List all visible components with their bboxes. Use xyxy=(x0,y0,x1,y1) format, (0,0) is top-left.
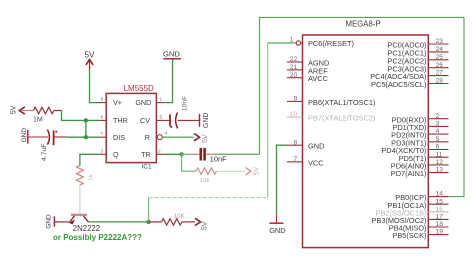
pin 20 AVCC stub xyxy=(287,72,329,83)
svg-text:19: 19 xyxy=(436,229,444,236)
wire THR node to DIS node xyxy=(85,120,87,137)
svg-text:2: 2 xyxy=(436,113,440,120)
svg-text:GND: GND xyxy=(135,98,151,107)
svg-text:12: 12 xyxy=(436,159,444,166)
pin 25 PC2(ADC2) stub xyxy=(387,54,448,66)
supply 5V (right of 10K) xyxy=(195,218,208,230)
svg-text:5: 5 xyxy=(436,136,440,143)
wire net B: collector node to RESET xyxy=(149,43,297,222)
pin 10 PB7(XTAL2/TOSC2) stub xyxy=(287,111,376,122)
IC1 pin stub DIS pin 7 xyxy=(99,131,106,137)
wire mega GND pin to ground xyxy=(277,145,287,223)
svg-text:20: 20 xyxy=(290,72,298,79)
pin 15 PB1(OC1A) stub xyxy=(387,198,448,210)
pin 13 PD7(AIN1) stub xyxy=(391,167,449,179)
svg-text:1M: 1M xyxy=(33,117,43,124)
ground GND (rotated, at 4.7uF) xyxy=(21,128,28,144)
svg-text:18: 18 xyxy=(436,221,444,228)
svg-text:10nF: 10nF xyxy=(210,155,227,164)
svg-text:9: 9 xyxy=(294,96,298,103)
wire node to cap xyxy=(182,153,191,155)
svg-text:5V: 5V xyxy=(253,167,260,176)
svg-text:7: 7 xyxy=(101,131,104,136)
svg-text:PB5(SCK): PB5(SCK) xyxy=(392,231,426,240)
svg-text:23: 23 xyxy=(436,38,444,45)
pin 23 PC0(ADC0) stub xyxy=(387,38,448,50)
ground GND (top, 555 GND pin) xyxy=(163,50,181,59)
svg-text:PD7(AIN1): PD7(AIN1) xyxy=(391,169,427,178)
pin 11 PD5(T1) stub xyxy=(399,151,449,163)
wire net A riser and top run xyxy=(260,17,465,154)
pin 17 PB3(MOSI/OC2) stub xyxy=(371,214,448,226)
wire 1M to THR node xyxy=(62,111,100,121)
pin 14 PB0(ICP) stub xyxy=(395,191,448,203)
wire cap to riser (net A) xyxy=(206,153,214,155)
svg-text:or Possibly P2222A???: or Possibly P2222A??? xyxy=(53,233,142,242)
ground GND (below mega) xyxy=(269,223,285,235)
svg-text:5V: 5V xyxy=(202,134,209,143)
pin 5 PD3(INT1) stub xyxy=(391,136,448,148)
pin 4 PD2(INT0) stub xyxy=(391,128,448,140)
svg-text:PC5(ADC5/SCL): PC5(ADC5/SCL) xyxy=(371,80,426,89)
wire ground to emitter xyxy=(54,221,69,223)
svg-text:24: 24 xyxy=(436,46,444,53)
svg-text:11: 11 xyxy=(436,151,443,158)
svg-text:GND: GND xyxy=(163,50,180,59)
pin 19 PB5(SCK) stub xyxy=(392,229,448,241)
svg-text:10K: 10K xyxy=(174,213,186,220)
svg-text:THR: THR xyxy=(113,116,128,125)
svg-text:2: 2 xyxy=(158,148,161,154)
pin 24 PC1(ADC1) stub xyxy=(387,46,448,58)
IC1 pin names xyxy=(113,98,151,159)
IC1 pin stub TR pin 2 xyxy=(156,148,163,154)
svg-text:5V: 5V xyxy=(85,50,96,59)
svg-text:4: 4 xyxy=(436,128,440,135)
pin 1 PC6(/RESET) xyxy=(290,36,354,47)
wire net A down right side to PB0 xyxy=(449,17,465,196)
IC1 pin stub THR pin 6 xyxy=(99,114,106,120)
svg-text:26: 26 xyxy=(436,62,444,69)
wire TR pin to node xyxy=(164,153,182,155)
svg-text:5V: 5V xyxy=(201,221,208,230)
resistor 10k (faded, to 5V) xyxy=(196,168,246,174)
pin 9 PB6(XTAL1/TOSC1) stub xyxy=(287,96,376,107)
svg-text:PB6(XTAL1/TOSC1): PB6(XTAL1/TOSC1) xyxy=(308,98,376,107)
svg-text:4.7uF: 4.7uF xyxy=(41,144,48,161)
svg-text:22: 22 xyxy=(290,56,298,63)
pin 12 PD6(AIN0) stub xyxy=(391,159,449,171)
wire 5V to V+ pin xyxy=(90,70,100,103)
svg-text:1: 1 xyxy=(160,97,163,103)
wire Q pin to 1k xyxy=(80,154,99,165)
IC IC1 LM555D timer box xyxy=(106,93,156,162)
pin 21 AREF stub xyxy=(287,64,328,75)
capacitor C 4.7uF (polarized) xyxy=(28,130,66,146)
ground GND (rotated, at emitter) xyxy=(46,214,55,229)
svg-text:6: 6 xyxy=(101,114,104,119)
svg-text:TR: TR xyxy=(141,150,151,159)
resistor 1k (faded, vertical) xyxy=(77,165,84,185)
svg-text:CV: CV xyxy=(140,116,150,125)
pin 16 PB2(SS/OC1B) stub xyxy=(376,206,449,218)
wire collector to node xyxy=(89,221,149,223)
svg-text:3: 3 xyxy=(101,148,104,153)
junction TR node xyxy=(180,152,184,156)
resistor 10K (pullup) xyxy=(162,219,196,225)
pin 7 VCC stub xyxy=(287,156,324,167)
supply 5V (top, to 555 V+) xyxy=(85,50,96,69)
transistor Q 2N2222 xyxy=(69,214,89,225)
svg-text:4: 4 xyxy=(165,131,168,137)
svg-text:GND: GND xyxy=(308,142,324,151)
svg-text:LM555D: LM555D xyxy=(124,84,154,93)
pin 2 PD0(RXD) stub xyxy=(392,113,449,125)
pin 6 PD4(XCK/T0) stub xyxy=(381,144,448,156)
svg-text:10nF: 10nF xyxy=(181,96,188,112)
svg-text:AVCC: AVCC xyxy=(308,74,329,83)
supply 5V (left, at 1M) xyxy=(11,105,34,114)
junction collector node xyxy=(146,220,150,224)
junction DIS node xyxy=(84,135,88,139)
svg-text:DIS: DIS xyxy=(113,133,125,142)
svg-text:10k: 10k xyxy=(200,178,210,184)
pin 18 PB4(MISO) stub xyxy=(389,221,449,233)
svg-text:IC1: IC1 xyxy=(142,164,153,171)
svg-text:1k: 1k xyxy=(88,174,94,180)
svg-text:7: 7 xyxy=(294,156,298,163)
pin 26 PC3(ADC3) stub xyxy=(387,62,448,74)
svg-text:MEGA8-P: MEGA8-P xyxy=(346,19,381,28)
pin 28 PC5(ADC5/SCL) stub xyxy=(371,78,448,90)
svg-text:15: 15 xyxy=(436,198,444,205)
IC1 pin stub GND pin 1 xyxy=(156,97,163,103)
svg-text:R: R xyxy=(145,133,150,142)
capacitor 10nF (coupling, on TR) xyxy=(200,148,206,161)
ground GND (rotated, right of CV cap) xyxy=(200,113,211,129)
svg-text:27: 27 xyxy=(436,70,444,77)
svg-text:21: 21 xyxy=(290,64,298,71)
svg-text:28: 28 xyxy=(436,78,444,85)
pin 27 PC4(ADC4/SDA) stub xyxy=(370,70,448,82)
supply 5V (faded, right of 10k) xyxy=(245,167,260,176)
IC1 pin stub R pin 4 (inverted) xyxy=(157,131,167,140)
svg-text:3: 3 xyxy=(436,121,440,128)
supply 5V (at R pin, arrow right) xyxy=(194,134,209,143)
svg-text:6: 6 xyxy=(436,144,440,151)
svg-text:8: 8 xyxy=(294,139,298,146)
capacitor 10nF (polarized, on CV) xyxy=(170,113,200,129)
IC MEGA8-P box xyxy=(303,35,429,248)
svg-text:PB7(XTAL2/TOSC2): PB7(XTAL2/TOSC2) xyxy=(308,114,376,123)
pin 22 AGND stub xyxy=(287,56,329,67)
resistor R 1M xyxy=(34,107,62,113)
wire cap to DIS node xyxy=(66,136,99,138)
svg-text:17: 17 xyxy=(436,214,444,221)
svg-text:GND: GND xyxy=(46,214,53,229)
wire R pin to 5V arrow xyxy=(162,136,193,138)
svg-text:8: 8 xyxy=(101,97,104,102)
svg-text:GND: GND xyxy=(269,226,285,235)
svg-text:16: 16 xyxy=(436,206,444,213)
svg-text:14: 14 xyxy=(436,191,444,198)
svg-text:GND: GND xyxy=(203,113,210,129)
svg-text:PC6(/RESET): PC6(/RESET) xyxy=(308,39,354,48)
wire 1k to base xyxy=(79,184,81,214)
wire CV pin to capacitor xyxy=(164,119,170,121)
svg-text:10: 10 xyxy=(290,111,298,118)
IC1 pin stub Q pin 3 xyxy=(99,148,106,154)
svg-text:2N2222: 2N2222 xyxy=(73,224,100,233)
svg-text:1: 1 xyxy=(290,36,294,43)
IC1 pin stub CV pin 5 xyxy=(156,114,163,120)
svg-text:25: 25 xyxy=(436,54,444,61)
wire TR node down to 10k xyxy=(182,154,196,171)
svg-text:13: 13 xyxy=(436,167,444,174)
svg-text:5V: 5V xyxy=(11,105,18,114)
IC1 pin stub V+ pin 8 xyxy=(99,97,106,103)
svg-text:VCC: VCC xyxy=(308,158,324,167)
wire node to 10K xyxy=(149,221,162,223)
junction THR node xyxy=(84,118,88,122)
svg-text:V+: V+ xyxy=(113,98,122,107)
pin 3 PD1(TXD) stub xyxy=(392,121,448,133)
pin 8 GND stub xyxy=(287,139,325,150)
wire GND pin to ground xyxy=(163,60,172,103)
svg-text:5: 5 xyxy=(160,114,163,120)
svg-text:Q: Q xyxy=(113,150,119,159)
